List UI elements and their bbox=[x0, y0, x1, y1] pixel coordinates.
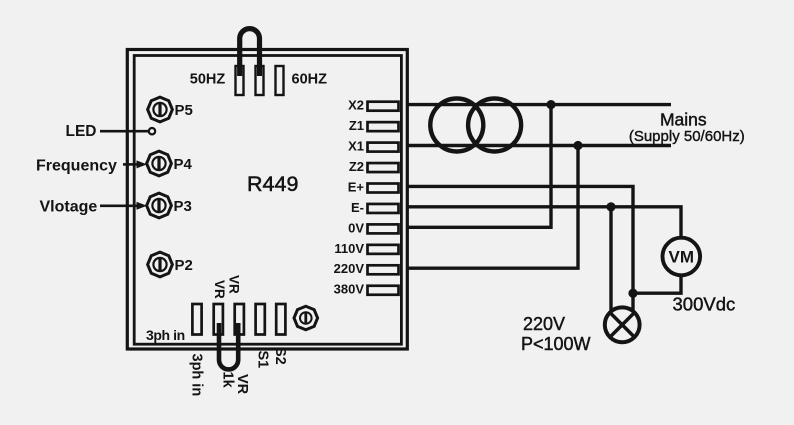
svg-text:P5: P5 bbox=[175, 102, 193, 119]
svg-text:S2: S2 bbox=[272, 347, 288, 365]
svg-text:380V: 380V bbox=[334, 282, 365, 297]
svg-text:220V: 220V bbox=[334, 261, 365, 276]
svg-text:110V: 110V bbox=[334, 241, 364, 256]
svg-text:Mains: Mains bbox=[660, 109, 707, 129]
svg-text:X1: X1 bbox=[348, 139, 364, 154]
svg-text:VM: VM bbox=[669, 248, 695, 267]
svg-text:P<100W: P<100W bbox=[521, 334, 591, 354]
svg-text:P2: P2 bbox=[175, 257, 193, 274]
svg-text:3ph in: 3ph in bbox=[146, 327, 185, 343]
svg-text:300Vdc: 300Vdc bbox=[673, 294, 736, 315]
svg-text:0V: 0V bbox=[348, 220, 364, 235]
svg-text:E+: E+ bbox=[348, 179, 365, 194]
svg-text:Vlotage: Vlotage bbox=[40, 199, 98, 216]
svg-text:R449: R449 bbox=[247, 172, 298, 196]
svg-text:Z2: Z2 bbox=[349, 159, 364, 174]
svg-text:P4: P4 bbox=[174, 156, 193, 173]
svg-text:X2: X2 bbox=[348, 98, 364, 113]
svg-text:VR: VR bbox=[212, 280, 227, 299]
svg-text:VR: VR bbox=[234, 374, 250, 395]
svg-text:Z1: Z1 bbox=[349, 118, 364, 133]
svg-text:Frequency: Frequency bbox=[36, 158, 117, 175]
svg-text:P3: P3 bbox=[174, 198, 192, 215]
svg-text:3ph in: 3ph in bbox=[189, 354, 205, 397]
svg-text:1k: 1k bbox=[220, 372, 236, 389]
svg-text:VR: VR bbox=[227, 275, 242, 294]
svg-text:E-: E- bbox=[351, 200, 364, 215]
svg-text:(Supply 50/60Hz): (Supply 50/60Hz) bbox=[629, 128, 745, 145]
svg-text:LED: LED bbox=[66, 123, 97, 140]
svg-text:60HZ: 60HZ bbox=[292, 72, 328, 88]
svg-text:220V: 220V bbox=[523, 314, 565, 334]
svg-text:S1: S1 bbox=[255, 351, 271, 369]
svg-text:50HZ: 50HZ bbox=[190, 72, 226, 88]
